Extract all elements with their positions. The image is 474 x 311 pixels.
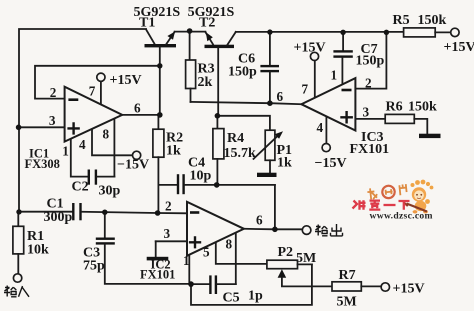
svg-text:5: 5 <box>203 245 210 260</box>
svg-text:R4: R4 <box>227 131 244 146</box>
svg-text:75p: 75p <box>83 259 105 274</box>
svg-text:R5: R5 <box>393 13 410 28</box>
svg-text:C5: C5 <box>223 291 240 306</box>
svg-text:150k: 150k <box>418 13 447 28</box>
svg-text:T1: T1 <box>139 15 155 30</box>
svg-text:+15V: +15V <box>110 73 142 88</box>
svg-text:FX101: FX101 <box>350 142 390 157</box>
svg-text:+15V: +15V <box>294 40 326 55</box>
svg-text:−15V: −15V <box>117 158 149 173</box>
svg-text:10p: 10p <box>190 169 212 184</box>
svg-text:8: 8 <box>226 237 233 252</box>
svg-text:6: 6 <box>134 101 141 116</box>
svg-text:T2: T2 <box>199 15 215 30</box>
svg-text:1k: 1k <box>277 156 292 171</box>
svg-text:2: 2 <box>165 198 172 213</box>
svg-text:R7: R7 <box>339 268 356 283</box>
svg-text:7: 7 <box>302 82 309 97</box>
svg-text:150p: 150p <box>356 54 385 69</box>
svg-text:6: 6 <box>256 213 263 228</box>
svg-text:1p: 1p <box>248 289 263 304</box>
svg-text:4: 4 <box>317 120 324 135</box>
svg-text:1: 1 <box>62 144 69 159</box>
svg-text:6: 6 <box>277 89 284 104</box>
svg-text:1: 1 <box>331 68 338 83</box>
svg-text:FX308: FX308 <box>25 157 60 171</box>
svg-text:1: 1 <box>183 253 190 268</box>
svg-text:10k: 10k <box>27 243 49 258</box>
svg-text:150k: 150k <box>408 100 437 115</box>
svg-text:+15V: +15V <box>393 281 425 296</box>
svg-text:−15V: −15V <box>315 156 347 171</box>
svg-text:15.7k: 15.7k <box>224 146 257 161</box>
svg-text:3: 3 <box>49 113 56 128</box>
svg-text:P2: P2 <box>278 245 294 260</box>
svg-text:2: 2 <box>365 76 372 91</box>
svg-text:1k: 1k <box>166 144 181 159</box>
svg-text:FX101: FX101 <box>140 268 175 282</box>
svg-text:2k: 2k <box>198 75 213 90</box>
svg-text:+15V: +15V <box>444 40 474 55</box>
svg-text:3: 3 <box>363 104 370 119</box>
svg-text:4: 4 <box>79 137 86 152</box>
svg-text:300p: 300p <box>44 210 73 225</box>
svg-text:3: 3 <box>164 226 171 241</box>
svg-text:5M: 5M <box>296 251 316 266</box>
svg-text:150p: 150p <box>228 65 257 80</box>
svg-text:R6: R6 <box>386 100 403 115</box>
svg-text:30p: 30p <box>99 184 121 199</box>
svg-text:C2: C2 <box>72 180 89 195</box>
svg-text:8: 8 <box>103 126 110 141</box>
svg-text:5M: 5M <box>337 295 357 310</box>
svg-text:7: 7 <box>89 83 96 98</box>
svg-text:2: 2 <box>50 85 57 100</box>
